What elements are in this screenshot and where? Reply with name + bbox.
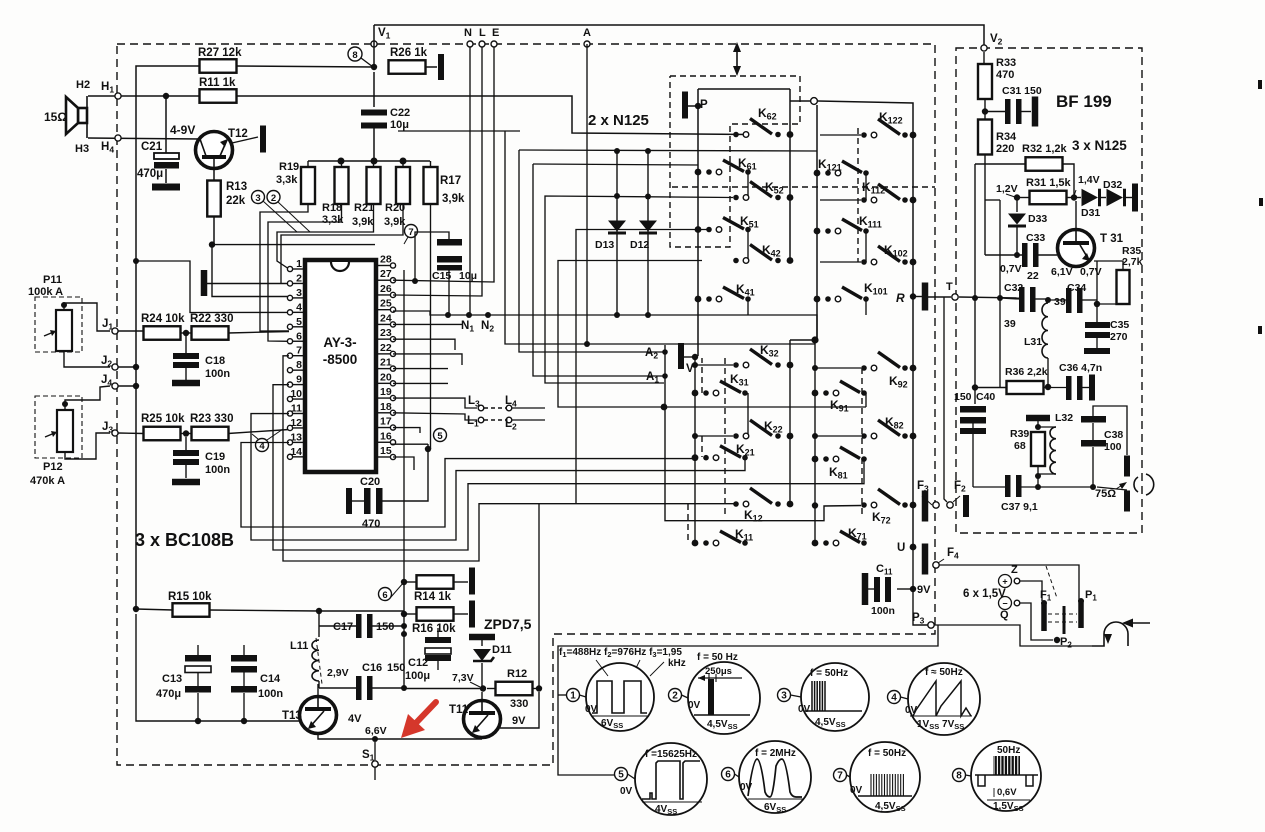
ground bar below C21 <box>152 184 180 191</box>
svg-text:3 x N125: 3 x N125 <box>1072 138 1127 153</box>
svg-text:f = 50Hz: f = 50Hz <box>810 668 848 679</box>
wire K32 feed <box>695 364 733 366</box>
potentiometer P11 body <box>56 310 72 351</box>
wire K92 feed <box>815 367 861 369</box>
svg-text:R31 1,5k: R31 1,5k <box>1026 177 1072 189</box>
svg-text:3,9k: 3,9k <box>442 193 465 205</box>
game selector dashed box upper left <box>670 76 800 247</box>
svg-text:0V: 0V <box>798 704 811 715</box>
resistor R39 68 <box>1031 432 1045 466</box>
resistor R14 1k <box>401 579 407 585</box>
wire P12 top to J4 <box>65 386 110 410</box>
terminal E <box>491 41 497 47</box>
svg-text:f1=488Hz f2=976Hz f3=1,95: f1=488Hz f2=976Hz f3=1,95 <box>559 647 682 659</box>
pin 8 <box>292 369 305 371</box>
svg-text:C36 4,7n: C36 4,7n <box>1059 362 1102 374</box>
svg-text:10μ: 10μ <box>390 119 409 131</box>
svg-text:D12: D12 <box>630 239 649 251</box>
svg-text:15: 15 <box>380 445 392 457</box>
wire R27 to V1 node <box>236 66 374 67</box>
terminal bar P <box>682 92 688 119</box>
svg-text:17: 17 <box>380 416 392 428</box>
double arrow top <box>736 48 738 70</box>
wire T12 collector to bar <box>232 137 258 143</box>
svg-text:ZPD7,5: ZPD7,5 <box>484 616 532 632</box>
svg-text:0V: 0V <box>740 782 753 793</box>
svg-text:3 x BC108B: 3 x BC108B <box>135 530 234 550</box>
svg-text:Z: Z <box>1011 564 1018 576</box>
svg-text:R33: R33 <box>996 57 1016 69</box>
resistor R27 12k <box>200 59 237 73</box>
wire K82 feed <box>815 435 861 437</box>
wire J2 to rail <box>118 366 136 368</box>
waveform circle 5 f=15625Hz <box>635 743 707 815</box>
wire C12 column to T11 node <box>404 686 483 689</box>
switch K21 <box>692 454 699 461</box>
junction K72 feed bus <box>812 502 818 508</box>
svg-text:150: 150 <box>387 662 405 674</box>
svg-text:22: 22 <box>380 342 392 354</box>
wire T31 collector to 1,4V node <box>1075 201 1077 230</box>
waveform key bracket <box>558 625 938 775</box>
svg-text:R26 1k: R26 1k <box>390 47 428 59</box>
wire pin22 <box>393 354 462 365</box>
svg-text:39: 39 <box>1004 318 1016 330</box>
pin 20 <box>376 382 391 384</box>
svg-text:−: − <box>1002 599 1007 609</box>
terminal J1 <box>112 328 118 334</box>
wire C13 top <box>197 645 199 655</box>
pin 5 <box>292 326 305 328</box>
svg-text:9V: 9V <box>512 715 526 727</box>
junction pin27 C15 <box>412 278 418 284</box>
capacitor C19 100n <box>185 437 187 450</box>
battery minus terminal Q <box>999 597 1012 610</box>
svg-text:A: A <box>583 27 591 39</box>
resistor R16 10k <box>401 611 407 617</box>
pin 13 <box>292 441 305 443</box>
svg-text:0V: 0V <box>585 704 598 715</box>
junction R33 R34 <box>982 108 988 114</box>
svg-text:8: 8 <box>352 50 357 61</box>
svg-text:0V: 0V <box>688 700 701 711</box>
switch K12 <box>733 501 739 507</box>
svg-text:6: 6 <box>382 590 387 601</box>
svg-text:C21: C21 <box>141 141 163 153</box>
pin 27 <box>376 279 391 281</box>
main unit dashed border <box>117 44 935 765</box>
svg-text:16: 16 <box>380 430 392 442</box>
svg-text:14: 14 <box>290 446 302 458</box>
junction 1,2V <box>1014 194 1020 200</box>
wire lower-left junction bus <box>694 357 696 543</box>
switch K111 <box>814 228 821 235</box>
wire rail 975 down to C40 <box>974 164 976 404</box>
wire K111 contact down <box>865 231 867 262</box>
wire K102 feed <box>820 261 861 263</box>
wire R32 to 1,4V node <box>1062 164 1074 197</box>
terminal A2 <box>662 349 668 355</box>
wire pin19 to L3 <box>393 398 477 408</box>
svg-text:6: 6 <box>725 770 731 781</box>
svg-text:D13: D13 <box>595 239 614 251</box>
coil L31 <box>1042 303 1048 358</box>
red arrow annotation <box>414 702 436 725</box>
wire K31 contact down <box>747 393 749 436</box>
switch K32 <box>733 362 739 368</box>
svg-text:27: 27 <box>380 268 392 280</box>
switch K112 <box>861 197 867 203</box>
svg-text:1,4V: 1,4V <box>1078 174 1100 186</box>
transistor T31 <box>1058 230 1095 267</box>
svg-text:7: 7 <box>296 345 302 357</box>
wire pin27 to terminal E <box>393 44 494 282</box>
potentiometer P12 body <box>57 410 73 452</box>
svg-text:R27 12k: R27 12k <box>198 47 242 59</box>
svg-text:N: N <box>464 27 472 39</box>
wire K41 contact down <box>747 299 749 315</box>
wire bias node east <box>212 244 375 246</box>
resistor R21 3,9k <box>367 167 381 204</box>
resistor R20 3,9k <box>396 167 410 204</box>
switch K72 <box>861 502 867 508</box>
waveform 7 trace burst <box>870 774 872 796</box>
page edge ticks <box>1258 80 1262 89</box>
wire down to R12 <box>538 504 540 689</box>
svg-text:D31: D31 <box>1081 207 1100 219</box>
terminal P2 contact <box>1063 606 1066 634</box>
wire R23 to pin 12 <box>228 430 289 434</box>
wire pin13 loop to K21 junction <box>241 443 694 528</box>
capacitor C18 100n <box>185 336 187 353</box>
resistor R26 1k <box>389 60 426 74</box>
junction L31 top <box>1045 297 1051 303</box>
waveform circle 7 f=50Hz burst <box>850 742 920 812</box>
svg-text:0,6V: 0,6V <box>997 787 1017 798</box>
svg-text:4V: 4V <box>348 713 362 725</box>
wire V1 vertical <box>373 25 375 64</box>
wire speaker top to R11 <box>88 95 200 97</box>
switch K52 <box>733 195 739 201</box>
dashed core line L11 <box>316 638 322 684</box>
svg-text:C20: C20 <box>360 476 380 488</box>
RF modulator dashed box BF199 <box>956 48 1142 533</box>
svg-text:R14 1k: R14 1k <box>414 591 452 603</box>
upper-right junction circle <box>790 100 810 102</box>
svg-text:10μ: 10μ <box>459 270 477 282</box>
svg-text:AY-3-: AY-3- <box>323 335 356 350</box>
resistor R34 220 <box>978 120 992 155</box>
svg-text:H3: H3 <box>75 143 89 155</box>
svg-text:6: 6 <box>296 330 302 342</box>
gang stub K21 <box>701 436 703 457</box>
svg-text:100n: 100n <box>258 688 283 700</box>
wire P11 bottom to J2 <box>64 351 110 367</box>
svg-text:5: 5 <box>437 431 443 442</box>
svg-text:26: 26 <box>380 283 392 295</box>
svg-text:470: 470 <box>362 518 380 530</box>
svg-text:3: 3 <box>296 287 302 299</box>
junction A line <box>584 341 590 347</box>
svg-text:R34: R34 <box>996 131 1017 143</box>
wire to T11 <box>375 738 482 740</box>
dashed link F1 P1 a <box>1048 613 1077 615</box>
junction J2 on rail <box>133 364 139 370</box>
phone plug symbol <box>1092 622 1128 646</box>
terminal V1 <box>371 41 377 47</box>
wire pin23 <box>393 339 455 350</box>
wire K101 contact down <box>865 299 867 315</box>
pin 9 <box>292 384 305 386</box>
switch K42 <box>733 258 739 264</box>
svg-text:12: 12 <box>290 417 302 429</box>
switch K31 <box>692 390 699 397</box>
resistor R33 470 <box>978 64 992 99</box>
wire bar to pin 2 <box>207 283 289 285</box>
svg-text:C18: C18 <box>205 355 225 367</box>
svg-text:P: P <box>700 99 708 111</box>
switch K91 <box>812 390 819 397</box>
svg-text:75Ω: 75Ω <box>1095 488 1116 500</box>
svg-text:f =15625Hz: f =15625Hz <box>645 749 697 760</box>
svg-text:f = 50 Hz: f = 50 Hz <box>697 652 738 663</box>
wire J1 to R24 <box>118 330 144 332</box>
pin 10 <box>292 398 305 400</box>
arrow to plug <box>1130 622 1150 624</box>
svg-text:100n: 100n <box>205 368 230 380</box>
svg-text:T12: T12 <box>228 128 248 140</box>
svg-text:C35: C35 <box>1110 319 1129 331</box>
svg-text:330: 330 <box>510 698 528 710</box>
pin 7 <box>292 355 305 357</box>
svg-text:8: 8 <box>956 771 962 782</box>
wire pin17 <box>393 428 420 433</box>
waveform circle 3 f=50Hz <box>801 663 869 731</box>
wire to T13 base <box>278 720 299 722</box>
svg-text:0V: 0V <box>620 786 633 797</box>
svg-text:C37 9,1: C37 9,1 <box>1001 501 1038 513</box>
switch K92 <box>861 365 867 371</box>
wire R32 left to rail 975 <box>975 163 1026 165</box>
svg-text:T13: T13 <box>282 710 302 722</box>
wire pin21 <box>393 368 448 370</box>
svg-text:R23 330: R23 330 <box>190 413 233 425</box>
wire J3 to R25 <box>118 432 144 435</box>
svg-text:100μ: 100μ <box>405 670 430 682</box>
svg-text:470: 470 <box>996 69 1014 81</box>
svg-text:4: 4 <box>296 301 302 313</box>
wire C15 bottom to bus <box>448 270 450 315</box>
svg-text:2: 2 <box>271 193 276 204</box>
wire P3 to phone plug <box>934 625 1092 646</box>
wire K122 feed <box>820 134 861 136</box>
svg-text:R39: R39 <box>1010 428 1029 440</box>
terminal H4 <box>115 135 121 141</box>
transistor T11 <box>464 701 501 738</box>
svg-text:24: 24 <box>380 312 392 324</box>
svg-text:9V: 9V <box>917 584 931 596</box>
svg-text:C17: C17 <box>333 621 353 633</box>
wire K91 contact down <box>865 393 867 407</box>
svg-text:R17: R17 <box>440 175 461 187</box>
switch K51 <box>695 226 702 233</box>
wire resistor bank top bus <box>308 160 430 162</box>
switch K41 <box>695 296 702 303</box>
capacitor C13 470u <box>185 655 211 662</box>
wire K61 contact down <box>747 172 749 198</box>
svg-text:22: 22 <box>1027 270 1039 282</box>
svg-text:3: 3 <box>781 691 787 702</box>
terminal N <box>467 41 473 47</box>
wire fan vertical 533 <box>533 164 698 165</box>
svg-text:R12: R12 <box>507 668 527 680</box>
waveform circle 4 sawtooth <box>908 663 980 735</box>
waveform 3 trace pulse burst <box>811 681 813 711</box>
wire T into modulator <box>959 297 1019 298</box>
svg-text:R15 10k: R15 10k <box>168 591 212 603</box>
svg-text:L31: L31 <box>1024 336 1042 348</box>
wire T31 emitter to R35 <box>1094 261 1123 270</box>
svg-text:R22 330: R22 330 <box>190 313 233 325</box>
svg-text:470μ: 470μ <box>156 688 181 700</box>
junction rail R15 <box>133 606 139 612</box>
gang line lower left K-2 column <box>724 358 726 515</box>
terminal F1 <box>1041 603 1047 631</box>
terminal F2 <box>963 495 969 517</box>
svg-text:100n: 100n <box>871 605 895 617</box>
terminal bar T12 collector <box>260 126 266 153</box>
terminal J3 <box>112 430 118 436</box>
switch K102 <box>861 259 867 265</box>
junction J4 on rail <box>133 383 139 389</box>
capacitor C14 100n <box>231 655 257 662</box>
svg-text:3,3k: 3,3k <box>276 174 298 186</box>
circled 4 <box>256 439 269 452</box>
svg-text:11: 11 <box>291 403 302 415</box>
coil L11 <box>312 640 319 681</box>
svg-text:C40: C40 <box>976 391 995 403</box>
switch K61 <box>695 169 702 176</box>
wire C17 to R16 node <box>372 625 404 627</box>
svg-text:H2: H2 <box>76 79 90 91</box>
svg-text:kHz: kHz <box>668 658 686 669</box>
potentiometer P11 100k dashed box <box>35 297 82 352</box>
pin 6 <box>292 340 305 342</box>
svg-text:C13: C13 <box>162 673 182 685</box>
svg-text:f ≈ 50Hz: f ≈ 50Hz <box>925 667 963 678</box>
svg-text:150: 150 <box>954 391 972 403</box>
svg-text:1: 1 <box>570 691 576 702</box>
svg-text:3: 3 <box>255 193 260 204</box>
terminal bar V <box>678 343 684 369</box>
junction S1 node <box>372 736 378 742</box>
wire R34 down <box>984 155 986 256</box>
wire to C17 <box>319 625 356 627</box>
waveform 1 trace square pulses <box>592 681 647 713</box>
wire R26 to terminal <box>425 66 437 68</box>
wire R11 output to switch K62 <box>236 96 749 135</box>
gang line K1xx <box>857 128 859 262</box>
svg-text:28: 28 <box>380 254 392 266</box>
dashed link Z F1 <box>1046 566 1057 598</box>
svg-text:9: 9 <box>296 374 302 386</box>
terminal bar R <box>922 283 929 311</box>
pin 14 <box>292 456 305 458</box>
svg-text:4: 4 <box>891 693 897 704</box>
svg-text:100k A: 100k A <box>28 286 63 298</box>
wire lower-left contact bus <box>789 340 791 504</box>
svg-text:220: 220 <box>996 143 1014 155</box>
junction A bus <box>661 404 668 411</box>
svg-text:C12: C12 <box>408 657 428 669</box>
wire pin9 loop to K81 contact <box>273 385 864 550</box>
circled 3 <box>252 191 265 204</box>
svg-text:270: 270 <box>1110 331 1128 343</box>
svg-text:2,7k: 2,7k <box>1122 256 1143 268</box>
svg-text:C22: C22 <box>390 107 410 119</box>
resistor R11 1k <box>200 89 237 103</box>
svg-text:R24 10k: R24 10k <box>141 313 185 325</box>
wire pin25 bus N1 N2 to matrix <box>393 311 817 340</box>
capacitor C11 100n <box>897 588 913 590</box>
svg-text:0,7V: 0,7V <box>1080 266 1102 278</box>
wire lower-right junction bus <box>814 340 816 506</box>
svg-text:22k: 22k <box>226 195 246 207</box>
wire right contact bus down to U <box>818 101 913 547</box>
pin 26 <box>376 294 391 296</box>
svg-text:100n: 100n <box>205 464 230 476</box>
potentiometer P12 470k dashed box <box>35 396 82 458</box>
svg-text:0V: 0V <box>905 705 918 716</box>
pin 21 <box>376 368 391 370</box>
transistor T12 <box>196 132 233 169</box>
svg-text:R: R <box>896 291 905 305</box>
wire T down to F2 <box>944 297 947 502</box>
pin 22 <box>376 353 391 355</box>
svg-text:L: L <box>479 27 486 39</box>
circled 8 waveform ref <box>348 47 362 61</box>
pin 3 <box>292 297 305 299</box>
svg-text:13: 13 <box>290 431 302 443</box>
switch K62 <box>733 132 739 138</box>
junction C21 top <box>163 93 169 99</box>
ground bar below C35 <box>1084 348 1110 354</box>
switch K81 <box>812 456 819 463</box>
switch K101 <box>814 296 821 303</box>
svg-text:R18: R18 <box>322 202 342 214</box>
svg-text:C14: C14 <box>260 673 281 685</box>
svg-text:2,9V: 2,9V <box>327 667 349 679</box>
terminal bar after R26 <box>438 54 444 80</box>
terminal bar after C36 <box>1089 375 1095 401</box>
svg-text:BF 199: BF 199 <box>1056 92 1112 111</box>
wire speaker bottom to T12 emitter <box>88 138 201 139</box>
junction emitter node <box>1094 301 1100 307</box>
switch K121 <box>814 170 821 177</box>
pin 4 <box>292 311 305 313</box>
svg-text:25: 25 <box>380 298 392 310</box>
gang stub K31 <box>701 358 703 393</box>
svg-text:4-9V: 4-9V <box>170 123 195 137</box>
junction R36 C36 L31 <box>1045 384 1051 390</box>
wire bus to K71 <box>814 506 816 544</box>
wire P12 bottom to J3 <box>65 433 110 459</box>
svg-text:470μ: 470μ <box>137 168 163 180</box>
wire pin26 to terminal L <box>393 44 482 296</box>
svg-text:7: 7 <box>837 771 843 782</box>
wire C14 top <box>243 645 245 655</box>
svg-text:T: T <box>946 281 953 293</box>
